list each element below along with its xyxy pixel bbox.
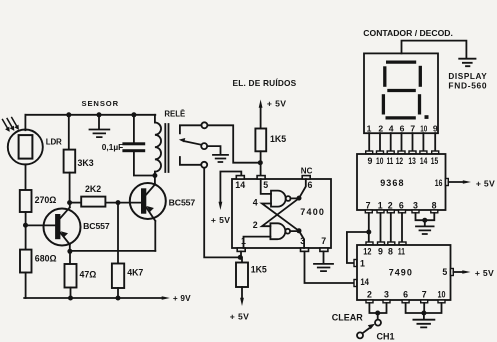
svg-text:8: 8: [432, 200, 437, 210]
svg-text:15: 15: [431, 156, 438, 166]
svg-text:2: 2: [378, 123, 383, 133]
svg-text:2K2: 2K2: [85, 184, 101, 194]
svg-text:3K3: 3K3: [78, 158, 94, 168]
svg-text:2: 2: [388, 200, 393, 210]
svg-text:9: 9: [378, 246, 383, 256]
svg-text:3: 3: [384, 290, 389, 300]
svg-text:RELĒ: RELĒ: [164, 110, 185, 119]
svg-text:9: 9: [433, 123, 438, 133]
svg-text:4K7: 4K7: [127, 268, 143, 278]
svg-text:SENSOR: SENSOR: [82, 99, 119, 108]
svg-text:270Ω: 270Ω: [35, 195, 57, 205]
svg-text:4: 4: [389, 123, 394, 133]
svg-text:+ 9V: + 9V: [173, 294, 191, 303]
svg-text:6: 6: [403, 290, 408, 300]
svg-text:6: 6: [399, 200, 404, 210]
svg-text:7: 7: [366, 200, 371, 210]
svg-text:BC557: BC557: [169, 197, 196, 207]
svg-text:LDR: LDR: [46, 138, 62, 147]
svg-text:2: 2: [367, 290, 372, 300]
svg-text:14: 14: [235, 180, 245, 190]
svg-text:3: 3: [300, 236, 305, 246]
svg-text:1: 1: [241, 236, 246, 246]
svg-text:7: 7: [321, 236, 326, 246]
svg-text:10: 10: [420, 123, 427, 133]
svg-text:47Ω: 47Ω: [80, 270, 97, 280]
svg-text:12: 12: [396, 156, 403, 166]
svg-text:BC557: BC557: [83, 221, 110, 231]
svg-text:11: 11: [387, 156, 394, 166]
svg-text:3: 3: [413, 200, 418, 210]
svg-text:1: 1: [367, 123, 372, 133]
svg-text:NC: NC: [301, 166, 313, 175]
svg-text:1K5: 1K5: [270, 134, 286, 144]
svg-text:CLEAR: CLEAR: [332, 312, 363, 322]
svg-text:6: 6: [308, 180, 313, 190]
svg-text:5: 5: [263, 180, 268, 190]
svg-text:1K5: 1K5: [251, 264, 267, 274]
svg-text:10: 10: [376, 156, 383, 166]
svg-text:9368: 9368: [380, 178, 404, 188]
svg-text:FND-560: FND-560: [448, 81, 487, 91]
svg-text:14: 14: [420, 156, 427, 166]
svg-text:EL. DE RUÍDOS: EL. DE RUÍDOS: [233, 78, 297, 88]
svg-text:+ 5V: + 5V: [211, 215, 231, 225]
svg-text:+ 5V: + 5V: [267, 99, 287, 109]
svg-text:+ 5V: + 5V: [476, 178, 495, 188]
svg-text:11: 11: [398, 246, 405, 256]
svg-text:14: 14: [360, 277, 369, 287]
svg-text:6: 6: [400, 123, 405, 133]
svg-text:9: 9: [367, 156, 372, 166]
svg-text:1: 1: [360, 259, 365, 269]
svg-text:7: 7: [410, 123, 415, 133]
svg-text:+ 5V: + 5V: [475, 268, 494, 278]
svg-text:8: 8: [388, 246, 393, 256]
svg-text:7: 7: [422, 290, 427, 300]
svg-text:2: 2: [253, 220, 258, 230]
svg-text:16: 16: [435, 178, 443, 188]
svg-text:+ 5V: + 5V: [230, 311, 250, 321]
svg-text:5: 5: [442, 267, 447, 277]
svg-text:4: 4: [253, 198, 258, 208]
svg-text:CONTADOR / DECOD.: CONTADOR / DECOD.: [363, 28, 453, 38]
svg-text:12: 12: [363, 246, 371, 256]
svg-text:1: 1: [378, 200, 383, 210]
svg-text:7490: 7490: [389, 268, 413, 278]
svg-text:0,1µF: 0,1µF: [102, 142, 123, 152]
svg-text:7400: 7400: [300, 207, 325, 217]
svg-text:13: 13: [408, 156, 415, 166]
svg-text:10: 10: [438, 290, 446, 300]
svg-text:CH1: CH1: [377, 332, 395, 342]
svg-text:680Ω: 680Ω: [35, 254, 57, 264]
